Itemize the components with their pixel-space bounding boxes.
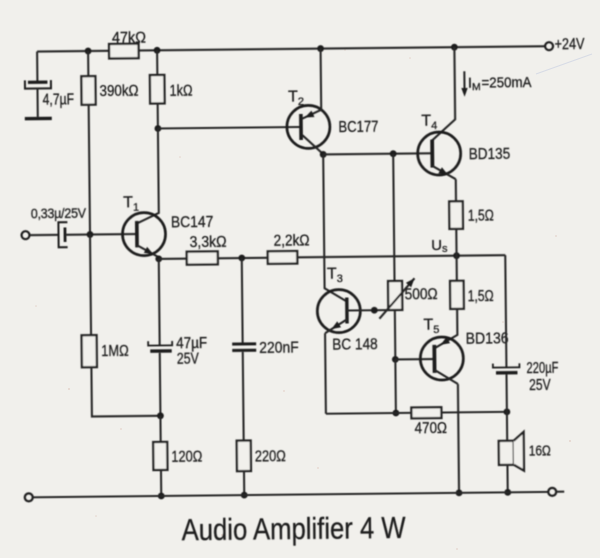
wire 1.5 lower to T5 <box>434 309 458 349</box>
capacitor 0,33uF input <box>31 205 87 248</box>
node T5 base junction <box>392 356 399 363</box>
wire T3 emitter down <box>324 333 327 413</box>
node T5-rail junction <box>456 489 463 496</box>
svg-text:Us: Us <box>431 237 448 255</box>
svg-text:=250mA: =250mA <box>481 75 531 92</box>
svg-text:1,5Ω: 1,5Ω <box>468 288 494 305</box>
svg-text:220µF: 220µF <box>526 360 558 377</box>
wire input node to 1M <box>90 234 91 335</box>
node rail-T2 junction <box>317 45 324 52</box>
wire bottom rail <box>33 492 548 497</box>
wire top +24V rail <box>37 46 545 51</box>
node 470 line junction <box>392 410 399 417</box>
wire 1k bottom to T2 base node <box>157 103 159 128</box>
wire 390k to input node <box>89 105 90 235</box>
svg-text:BC177: BC177 <box>338 119 378 136</box>
svg-text:4,7µF: 4,7µF <box>43 91 75 108</box>
transistor T2 BC177 <box>286 48 379 155</box>
capacitor 4.7uF <box>25 80 74 117</box>
wire down to 470 line <box>394 359 397 413</box>
resistor 470Ohm <box>411 407 447 437</box>
capacitor 220nF <box>232 339 299 357</box>
svg-text:BD136: BD136 <box>466 330 509 347</box>
wire 220nF to 220 <box>242 352 245 441</box>
wire Us to 1.5 lower <box>456 256 458 281</box>
node T3 base dot <box>371 307 378 314</box>
scratch artifact <box>536 54 592 74</box>
svg-text:120Ω: 120Ω <box>171 449 202 466</box>
wire Us line <box>297 255 505 257</box>
resistor 1kOhm <box>150 75 193 104</box>
wire T5 base line <box>395 358 434 361</box>
wire 1k top <box>156 50 158 75</box>
node 120-rail junction <box>158 493 165 500</box>
resistor 120Ohm <box>153 442 202 471</box>
wire speaker bottom <box>506 465 508 492</box>
svg-text:2,2kΩ: 2,2kΩ <box>274 232 310 249</box>
svg-text:T5: T5 <box>423 317 439 337</box>
svg-text:220nF: 220nF <box>259 339 299 356</box>
current arrow IM <box>461 71 532 97</box>
wire stub right <box>556 491 564 493</box>
svg-text:47kΩ: 47kΩ <box>112 30 146 47</box>
transistor T4 BD135 <box>417 112 510 180</box>
svg-text:500Ω: 500Ω <box>405 286 438 303</box>
terminal bottom left <box>25 493 33 501</box>
svg-text:25V: 25V <box>177 351 200 368</box>
wire rail to T4 <box>431 47 455 140</box>
wire between 3.3k and 2.2k <box>218 257 268 260</box>
node T2 base junction <box>154 125 161 132</box>
potentiometer 500Ohm <box>379 278 438 319</box>
terminal input <box>21 231 29 239</box>
resistor 1.5Ohm upper <box>449 201 494 229</box>
svg-text:Audio Amplifier 4 W: Audio Amplifier 4 W <box>181 510 406 547</box>
svg-text:T2: T2 <box>288 88 304 108</box>
svg-text:1kΩ: 1kΩ <box>169 82 192 99</box>
wire 220uF bottom <box>505 374 507 411</box>
wire T4 emitter to 1.5 <box>455 179 457 201</box>
wire 220nF column top <box>241 258 244 343</box>
node 1M link junction <box>157 412 164 419</box>
capacitor 220uF 25V <box>493 360 559 395</box>
node 220-rail junction <box>241 492 248 499</box>
wire T2 base line <box>158 127 301 128</box>
transistor T5 BD136 <box>420 316 509 385</box>
node rail-1k junction <box>154 47 161 54</box>
svg-text:BD135: BD135 <box>469 146 511 163</box>
wire T3 collector column <box>323 154 347 302</box>
wire speaker top <box>506 412 508 441</box>
node cap-speaker junction <box>503 408 510 415</box>
svg-text:BC147: BC147 <box>171 214 214 231</box>
svg-text:16Ω: 16Ω <box>529 442 551 459</box>
wire C1 to T1 base <box>66 233 137 236</box>
wire T5 collector to rail <box>458 384 459 493</box>
svg-text:1,5Ω: 1,5Ω <box>468 207 494 224</box>
node speaker-rail junction <box>504 489 511 496</box>
svg-text:1MΩ: 1MΩ <box>101 343 129 360</box>
wire to 120 <box>159 416 161 442</box>
speaker 16Ohm <box>499 432 551 471</box>
resistor 2.2kOhm <box>268 232 310 263</box>
wire T1 collector <box>136 128 159 223</box>
node rail-390k junction <box>85 48 92 55</box>
resistor 3.3kOhm <box>187 234 227 265</box>
resistor 47kOhm <box>109 30 146 59</box>
node Us junction <box>453 252 460 259</box>
wire 1.5 to Us <box>455 229 457 256</box>
node T2 collector junction <box>320 151 327 158</box>
wire 120 bottom <box>160 470 162 496</box>
transistor T3 BC148 <box>317 265 378 354</box>
svg-text:3,3kΩ: 3,3kΩ <box>190 234 227 251</box>
wire 47uF column top <box>158 259 161 346</box>
svg-text:25V: 25V <box>529 377 551 394</box>
node T1 emitter junction <box>155 255 162 262</box>
svg-text:T3: T3 <box>327 266 343 286</box>
wire 47uF bottom <box>159 353 162 416</box>
transistor T1 BC147 <box>122 193 214 259</box>
svg-text:M: M <box>472 81 481 93</box>
terminal +24V <box>545 42 553 50</box>
wire 220 bottom <box>243 471 245 495</box>
wire rail to C 4.7uF <box>36 52 38 82</box>
terminal bottom right <box>548 488 556 496</box>
resistor 1MOhm <box>82 335 129 367</box>
svg-text:470Ω: 470Ω <box>414 420 447 437</box>
wire T2C to T4 base <box>323 153 432 154</box>
node pot branch junction <box>390 150 397 157</box>
node rail-T4 junction <box>451 44 458 51</box>
wire pot column top <box>393 154 394 281</box>
wire pot bottom to T5 base <box>394 310 397 359</box>
resistor 1.5Ohm lower <box>450 280 494 308</box>
svg-text:0,33µ/25V: 0,33µ/25V <box>31 205 87 222</box>
svg-text:T1: T1 <box>123 194 139 214</box>
wire 390k top <box>87 51 89 76</box>
resistor 390kOhm <box>81 76 138 105</box>
svg-text:BC 148: BC 148 <box>332 336 378 353</box>
wire T3 base line <box>347 309 395 312</box>
svg-text:+24V: +24V <box>554 36 585 53</box>
wire 1M bottom link <box>91 366 160 416</box>
wire emitter line left <box>159 258 187 260</box>
ground <box>25 117 52 121</box>
node input junction <box>87 231 94 238</box>
svg-text:220Ω: 220Ω <box>255 448 286 465</box>
wire 470 line <box>326 412 507 414</box>
resistor 220Ohm <box>237 440 286 471</box>
node 220nF junction <box>238 255 245 262</box>
wire Us corner to 220uF <box>505 255 506 367</box>
wire input terminal to C1 <box>30 234 59 236</box>
capacitor 47uF 25V <box>148 335 207 368</box>
svg-text:T4: T4 <box>421 113 437 133</box>
svg-text:390kΩ: 390kΩ <box>99 83 138 100</box>
